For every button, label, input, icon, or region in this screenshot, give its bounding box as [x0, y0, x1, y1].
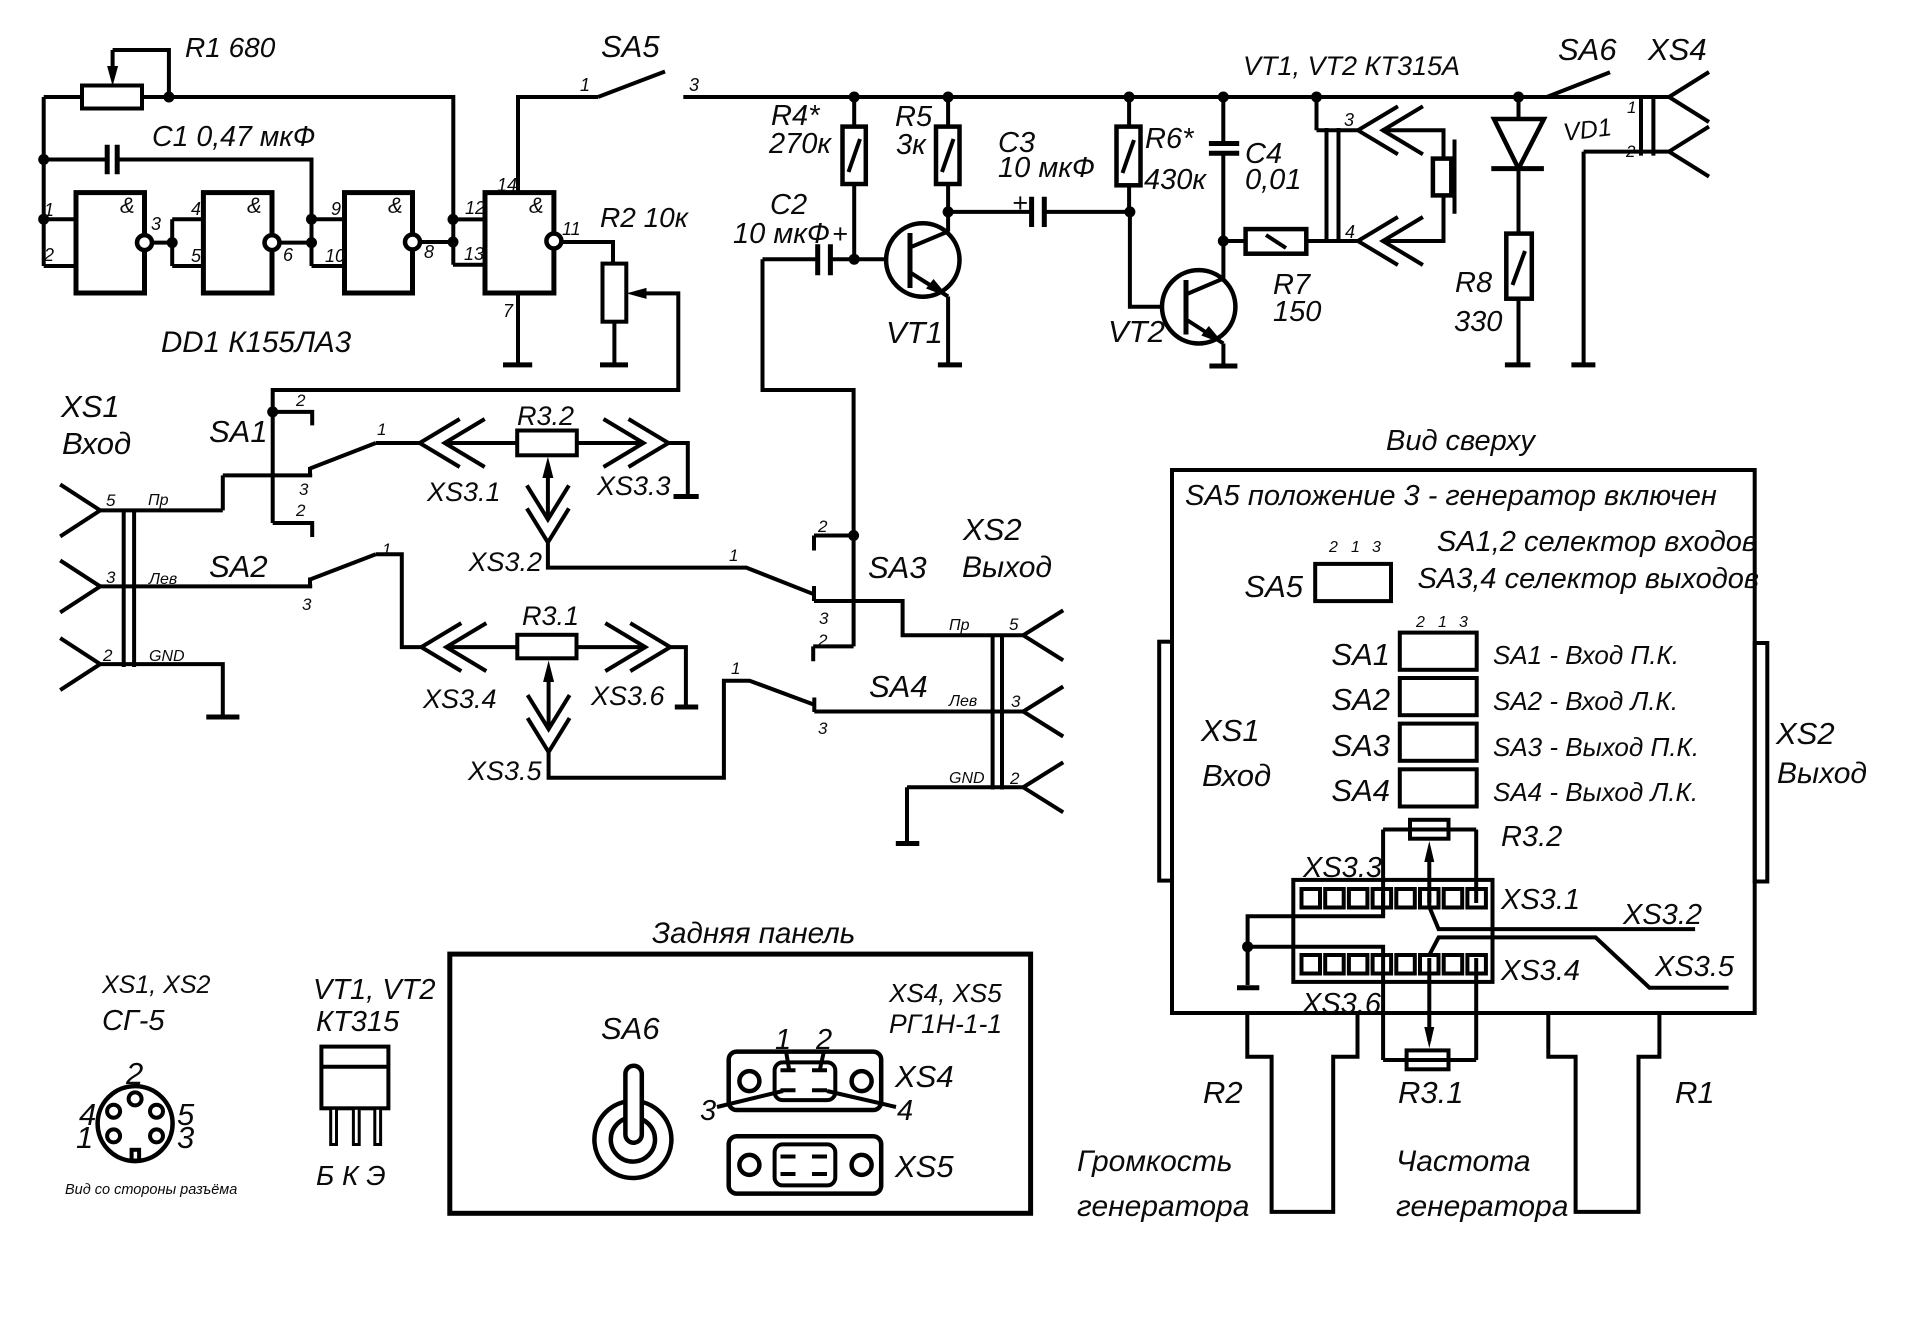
svg-text:SA3: SA3: [1331, 728, 1390, 763]
svg-text:4: 4: [897, 1095, 913, 1127]
svg-text:Лев: Лев: [148, 571, 177, 588]
svg-text:Б К Э: Б К Э: [316, 1160, 386, 1191]
svg-text:5: 5: [191, 246, 202, 266]
svg-text:3: 3: [689, 75, 699, 95]
svg-text:2: 2: [295, 391, 306, 410]
svg-text:XS3.2: XS3.2: [1622, 899, 1702, 931]
svg-text:3: 3: [1372, 539, 1381, 556]
svg-text:2: 2: [815, 1024, 832, 1056]
svg-text:XS3.3: XS3.3: [596, 471, 671, 501]
svg-text:2: 2: [817, 517, 828, 536]
svg-text:4: 4: [1345, 222, 1355, 242]
svg-text:0,01: 0,01: [1245, 164, 1301, 196]
svg-text:XS3.4: XS3.4: [1500, 955, 1580, 987]
svg-text:1: 1: [1438, 614, 1447, 631]
svg-text:генератора: генератора: [1077, 1190, 1249, 1223]
svg-text:13: 13: [464, 244, 484, 264]
svg-text:Лев: Лев: [948, 693, 977, 710]
svg-text:3: 3: [106, 568, 116, 587]
svg-text:XS2: XS2: [962, 512, 1022, 547]
svg-text:R1 680: R1 680: [185, 32, 276, 63]
svg-text:10 мкФ: 10 мкФ: [998, 152, 1095, 184]
svg-text:SA2: SA2: [1331, 682, 1390, 717]
svg-text:SA1,2 селектор входов: SA1,2 селектор входов: [1437, 526, 1757, 558]
svg-text:SA1 - Вход П.К.: SA1 - Вход П.К.: [1493, 640, 1679, 670]
svg-text:VT1, VT2: VT1, VT2: [313, 974, 436, 1006]
svg-text:XS3.5: XS3.5: [1654, 951, 1735, 983]
svg-text:3: 3: [700, 1095, 716, 1127]
svg-text:VT1, VT2 КТ315А: VT1, VT2 КТ315А: [1243, 51, 1460, 81]
svg-text:4: 4: [191, 199, 201, 219]
svg-text:SA1: SA1: [209, 414, 268, 449]
svg-text:Вид сверху: Вид сверху: [1386, 425, 1536, 457]
svg-text:330: 330: [1454, 306, 1502, 338]
svg-text:3к: 3к: [896, 129, 927, 161]
svg-text:2: 2: [1415, 614, 1425, 631]
svg-text:3: 3: [1459, 614, 1468, 631]
svg-text:SA2 - Вход Л.К.: SA2 - Вход Л.К.: [1493, 686, 1678, 716]
svg-text:2: 2: [1328, 539, 1338, 556]
svg-text:1: 1: [76, 1120, 93, 1155]
svg-text:Выход: Выход: [1777, 757, 1867, 790]
svg-text:DD1 К155ЛА3: DD1 К155ЛА3: [161, 326, 352, 359]
svg-text:9: 9: [331, 199, 341, 219]
svg-text:SA4: SA4: [1331, 773, 1390, 808]
svg-text:2: 2: [102, 646, 113, 665]
svg-text:XS3.5: XS3.5: [467, 756, 543, 786]
svg-text:5: 5: [1009, 615, 1019, 634]
svg-text:C1 0,47 мкФ: C1 0,47 мкФ: [152, 121, 315, 153]
svg-text:3: 3: [818, 719, 828, 738]
svg-text:R3.2: R3.2: [1501, 821, 1562, 853]
svg-text:XS1, XS2: XS1, XS2: [101, 971, 210, 999]
svg-text:Вид со стороны разъёма: Вид со стороны разъёма: [65, 1182, 237, 1198]
svg-text:VD1: VD1: [1562, 113, 1614, 147]
svg-text:XS4: XS4: [1647, 32, 1707, 67]
svg-text:1: 1: [580, 75, 590, 95]
svg-text:R2: R2: [1203, 1075, 1243, 1110]
svg-text:GND: GND: [149, 648, 185, 665]
svg-text:КТ315: КТ315: [316, 1006, 400, 1038]
svg-text:270к: 270к: [768, 128, 832, 160]
svg-text:2: 2: [43, 245, 54, 265]
svg-text:11: 11: [562, 219, 581, 239]
svg-text:&: &: [388, 193, 403, 218]
svg-text:2: 2: [817, 631, 828, 650]
svg-text:SA2: SA2: [209, 549, 268, 584]
svg-text:XS1: XS1: [60, 389, 120, 424]
svg-text:+: +: [832, 219, 848, 249]
svg-text:C2: C2: [770, 189, 807, 221]
svg-text:Вход: Вход: [1202, 758, 1271, 793]
svg-text:2: 2: [125, 1056, 143, 1091]
svg-text:1: 1: [377, 420, 386, 439]
svg-text:2: 2: [1009, 769, 1020, 788]
svg-text:XS3.1: XS3.1: [426, 477, 501, 507]
svg-text:VT2: VT2: [1108, 314, 1165, 349]
svg-text:R1: R1: [1675, 1075, 1715, 1110]
svg-text:SA6: SA6: [1558, 32, 1617, 67]
svg-text:2: 2: [295, 501, 306, 520]
svg-text:R6*: R6*: [1145, 123, 1195, 155]
svg-text:XS3.3: XS3.3: [1302, 852, 1382, 884]
svg-text:Вход: Вход: [62, 426, 131, 461]
svg-text:430к: 430к: [1144, 164, 1207, 196]
svg-text:XS4: XS4: [894, 1059, 954, 1094]
svg-text:Громкость: Громкость: [1077, 1145, 1233, 1178]
svg-text:&: &: [120, 193, 135, 218]
svg-text:14: 14: [497, 175, 517, 195]
svg-text:7: 7: [503, 301, 514, 321]
svg-text:6: 6: [283, 245, 294, 265]
svg-text:SA1: SA1: [1331, 637, 1390, 672]
svg-text:10: 10: [325, 246, 345, 266]
svg-text:150: 150: [1273, 296, 1321, 328]
svg-text:R8: R8: [1455, 267, 1492, 299]
svg-text:VT1: VT1: [886, 315, 943, 350]
svg-text:XS2: XS2: [1775, 716, 1835, 751]
svg-text:3: 3: [302, 595, 312, 614]
svg-text:R3.1: R3.1: [522, 601, 579, 631]
svg-text:XS5: XS5: [894, 1149, 954, 1184]
svg-text:XS3.6: XS3.6: [590, 681, 666, 711]
svg-text:Пр: Пр: [949, 617, 970, 634]
svg-text:1: 1: [1627, 98, 1636, 117]
svg-text:генератора: генератора: [1396, 1190, 1568, 1223]
svg-text:GND: GND: [949, 770, 985, 787]
svg-text:R3.2: R3.2: [517, 401, 574, 431]
svg-text:3: 3: [819, 609, 829, 628]
svg-text:8: 8: [424, 242, 434, 262]
svg-text:СГ-5: СГ-5: [102, 1005, 165, 1037]
svg-text:SA3,4 селектор выходов: SA3,4 селектор выходов: [1418, 563, 1759, 595]
svg-text:РГ1Н-1-1: РГ1Н-1-1: [889, 1009, 1002, 1039]
svg-text:XS3.2: XS3.2: [467, 547, 542, 577]
svg-text:3: 3: [177, 1120, 194, 1155]
svg-text:1: 1: [382, 540, 391, 559]
svg-text:R2 10к: R2 10к: [600, 202, 690, 233]
svg-text:1: 1: [1351, 539, 1360, 556]
svg-text:3: 3: [151, 214, 161, 234]
svg-text:1: 1: [731, 659, 740, 678]
svg-text:1: 1: [729, 546, 738, 565]
svg-text:SA3: SA3: [868, 550, 927, 585]
svg-text:3: 3: [1011, 692, 1021, 711]
svg-text:Задняя панель: Задняя панель: [652, 917, 855, 950]
svg-text:Выход: Выход: [962, 551, 1052, 584]
svg-text:XS3.4: XS3.4: [422, 684, 497, 714]
svg-text:&: &: [529, 193, 544, 218]
svg-text:SA3 - Выход П.К.: SA3 - Выход П.К.: [1493, 732, 1699, 762]
svg-text:12: 12: [465, 198, 485, 218]
svg-text:5: 5: [106, 491, 116, 510]
svg-text:SA6: SA6: [601, 1011, 660, 1046]
svg-text:XS4, XS5: XS4, XS5: [888, 978, 1002, 1008]
svg-text:+: +: [1012, 188, 1028, 218]
svg-text:10 мкФ: 10 мкФ: [733, 218, 830, 250]
svg-text:SA5 положение 3 - генератор вк: SA5 положение 3 - генератор включен: [1185, 480, 1717, 512]
svg-text:R3.1: R3.1: [1398, 1075, 1463, 1110]
svg-text:SA5: SA5: [1244, 569, 1303, 604]
svg-text:1: 1: [775, 1024, 791, 1056]
svg-text:3: 3: [1344, 110, 1354, 130]
svg-text:3: 3: [299, 480, 309, 499]
svg-text:2: 2: [1625, 142, 1636, 161]
svg-text:XS1: XS1: [1200, 713, 1260, 748]
svg-text:1: 1: [44, 200, 54, 220]
svg-text:Частота: Частота: [1396, 1145, 1531, 1178]
svg-text:Пр: Пр: [148, 492, 169, 509]
svg-text:SA4: SA4: [869, 669, 928, 704]
svg-text:SA4 - Выход Л.К.: SA4 - Выход Л.К.: [1493, 777, 1698, 807]
svg-text:XS3.6: XS3.6: [1301, 988, 1382, 1020]
svg-text:&: &: [247, 193, 262, 218]
svg-text:XS3.1: XS3.1: [1500, 884, 1580, 916]
svg-text:SA5: SA5: [601, 29, 660, 64]
